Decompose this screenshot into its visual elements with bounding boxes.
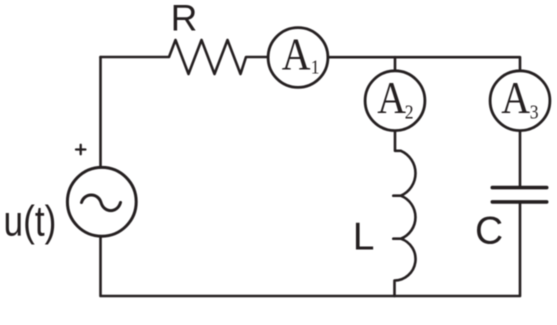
svg-text:C: C xyxy=(475,209,503,252)
svg-text:3: 3 xyxy=(530,102,539,124)
svg-text:A: A xyxy=(501,74,530,124)
svg-text:A: A xyxy=(282,31,311,81)
svg-text:u(t): u(t) xyxy=(4,197,57,245)
svg-text:1: 1 xyxy=(311,57,320,79)
svg-text:R: R xyxy=(171,0,198,38)
svg-text:L: L xyxy=(353,215,375,258)
svg-text:2: 2 xyxy=(405,101,414,123)
svg-text:A: A xyxy=(377,74,406,124)
